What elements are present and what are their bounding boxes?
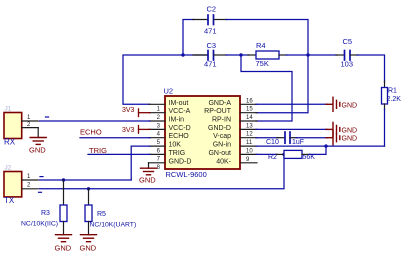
svg-text:IM-in: IM-in <box>169 117 185 124</box>
svg-text:VCC-A: VCC-A <box>169 108 191 115</box>
resistor R3 <box>60 205 67 222</box>
svg-text:C3: C3 <box>207 41 217 50</box>
svg-text:2: 2 <box>157 115 161 121</box>
wire R2 riser to pin11 node <box>309 146 326 154</box>
capacitor C10 <box>285 132 290 143</box>
svg-text:NC/10K(IIC): NC/10K(IIC) <box>21 220 58 227</box>
pin 14 stub RP-IN <box>240 120 257 122</box>
svg-text:C10: C10 <box>266 139 279 146</box>
wire C10 to ground <box>296 137 327 139</box>
svg-text:9: 9 <box>246 157 250 163</box>
connector RX <box>4 113 22 139</box>
wire R5 bottom lead <box>88 222 90 235</box>
svg-text:TRIG: TRIG <box>89 146 107 155</box>
svg-text:75K: 75K <box>256 59 269 68</box>
pin 10 stub GN-out <box>240 153 257 155</box>
svg-text:14: 14 <box>246 115 253 121</box>
svg-text:GND: GND <box>342 102 358 109</box>
ground right of pin16 <box>326 97 340 111</box>
svg-text:GND-A: GND-A <box>208 100 231 107</box>
wire ECHO to pin5 <box>80 137 150 139</box>
wire C2 right leg <box>226 20 308 56</box>
svg-text:3: 3 <box>157 123 161 129</box>
connector TX <box>4 172 22 197</box>
pin 9 stub 40K- <box>240 162 257 164</box>
svg-text:GND: GND <box>55 244 72 253</box>
wire C2 right black lead <box>214 19 227 21</box>
pin 15 stub RP-OUT <box>240 112 257 114</box>
wire RX pin2 down to ground <box>37 128 39 138</box>
wire C5 left black lead <box>336 54 344 56</box>
svg-text:GND: GND <box>342 127 358 134</box>
svg-text:10K: 10K <box>169 142 182 149</box>
wire R3 bottom lead <box>63 222 65 235</box>
svg-text:1: 1 <box>157 107 161 113</box>
svg-text:V-cap: V-cap <box>213 133 231 140</box>
capacitor C3 <box>208 51 214 61</box>
node junction C2 left leg / mid row <box>181 53 184 56</box>
svg-text:13: 13 <box>246 123 253 129</box>
pin 5 stub ECHO <box>149 137 165 139</box>
svg-text:2: 2 <box>27 182 31 188</box>
svg-text:GND: GND <box>139 176 156 185</box>
wire pin1 loop to feedback network <box>123 55 208 104</box>
RX pin 1 stub <box>22 120 39 122</box>
svg-text:GND: GND <box>80 244 97 253</box>
wire RX pin1 to IC pin3 <box>40 120 151 122</box>
wire R3 top lead <box>63 180 65 205</box>
svg-text:U2: U2 <box>164 87 174 96</box>
pin 8 stub GND-D <box>149 162 166 164</box>
ground below R3 <box>56 235 72 242</box>
svg-text:GN-in: GN-in <box>213 142 231 149</box>
wire C3 left black lead <box>193 54 208 56</box>
svg-text:R1: R1 <box>388 88 397 95</box>
svg-text:GN-out: GN-out <box>208 150 231 157</box>
svg-text:16: 16 <box>246 98 253 104</box>
wire C2 left leg <box>183 20 194 56</box>
wire C3 right black lead <box>214 54 227 56</box>
svg-text:1: 1 <box>27 174 31 180</box>
power symbol 3V3 pin2 <box>139 109 151 117</box>
svg-text:ECHO: ECHO <box>169 133 190 140</box>
wire TX pin1 to riser <box>40 179 132 181</box>
pin 1 stub IM-out <box>149 103 165 105</box>
node junction pin11 / R2 riser <box>324 144 327 147</box>
TX pin 2 stub <box>22 188 39 190</box>
pin 16 stub GND-A <box>240 103 257 105</box>
svg-text:RP-OUT: RP-OUT <box>204 108 232 115</box>
capacitor C5 <box>345 51 351 61</box>
pin 3 stub IM-in <box>149 120 165 122</box>
wire C5 right black lead <box>351 54 359 56</box>
power symbol 3V3 pin4 <box>139 126 151 134</box>
ground below RX pin2 <box>30 138 46 145</box>
IC U2 body <box>165 96 240 169</box>
wire R2 right black lead <box>302 153 310 155</box>
pin 11 stub GN-in <box>240 145 257 147</box>
svg-text:6: 6 <box>157 148 161 154</box>
wire pin10 to R2 <box>256 153 277 155</box>
wire R4 left black lead <box>248 54 256 56</box>
svg-text:2.2K: 2.2K <box>387 96 402 103</box>
node junction C3/R4/pin14 branch <box>239 53 242 56</box>
wire R4 to C5 <box>286 54 337 56</box>
svg-text:R4: R4 <box>256 41 266 50</box>
RX pin 2 stub <box>22 127 39 129</box>
wire R1 bottom black lead <box>384 104 386 110</box>
svg-text:R5: R5 <box>97 211 106 218</box>
node junction R4/C5/C2-right <box>306 53 309 56</box>
svg-text:11: 11 <box>246 140 253 146</box>
pin 4 stub VCC-D <box>149 128 165 130</box>
svg-text:471: 471 <box>204 27 217 36</box>
svg-text:TX: TX <box>4 196 15 205</box>
svg-text:8: 8 <box>157 165 161 171</box>
wire C3 to R4 <box>226 54 249 56</box>
wire R2 left black lead <box>276 153 284 155</box>
svg-text:RCWL-9600: RCWL-9600 <box>166 170 207 179</box>
wire C2 left black lead <box>193 19 208 21</box>
svg-text:15: 15 <box>246 107 253 113</box>
svg-text:7: 7 <box>157 157 161 163</box>
capacitor C2 <box>208 15 214 25</box>
wire riser TX pin1 to pin6 <box>131 146 150 180</box>
svg-text:GND-D: GND-D <box>169 158 192 165</box>
pin 6 stub 10K <box>149 145 165 147</box>
svg-text:C2: C2 <box>207 5 217 14</box>
svg-text:R3: R3 <box>41 210 50 217</box>
resistor R1 <box>382 88 388 105</box>
svg-text:TRIG: TRIG <box>169 150 186 157</box>
wire R1 bottom to pin11 row <box>384 109 386 146</box>
ground below pin8 <box>141 168 157 175</box>
svg-text:VCC-D: VCC-D <box>169 125 191 132</box>
svg-text:J2: J2 <box>5 165 12 172</box>
pin 2 stub VCC-A <box>149 112 165 114</box>
wire pin12 to C10 <box>256 137 278 139</box>
svg-text:GND: GND <box>342 136 358 143</box>
wire R5 top lead <box>88 189 90 205</box>
ground right of C10 <box>326 131 340 145</box>
svg-text:4: 4 <box>157 132 161 138</box>
svg-text:IM-out: IM-out <box>169 100 189 107</box>
svg-text:3V3: 3V3 <box>122 107 135 114</box>
node junction TX pin2 / R5 <box>87 187 90 190</box>
svg-text:R2: R2 <box>268 154 277 161</box>
svg-text:1uF: 1uF <box>292 139 304 146</box>
svg-text:40K-: 40K- <box>216 158 231 165</box>
svg-text:ECHO: ECHO <box>80 128 102 137</box>
svg-text:471: 471 <box>204 60 217 69</box>
svg-text:103: 103 <box>341 60 354 69</box>
wire R1 top black lead <box>384 81 386 88</box>
node junction pin10 / TX pin2 riser <box>282 153 285 156</box>
svg-text:3V3: 3V3 <box>122 127 135 134</box>
wire pin15 branch from R4/C5 node <box>256 55 308 113</box>
svg-text:RX: RX <box>4 138 16 147</box>
svg-text:RP-IN: RP-IN <box>212 117 231 124</box>
svg-text:10: 10 <box>246 148 253 154</box>
wire TX pin2 long run to R2 node <box>40 154 285 188</box>
wire pin14 branch from C3/R4 node <box>241 55 292 121</box>
resistor R2 <box>284 150 302 158</box>
wire TRIG to pin7 <box>88 153 150 155</box>
wire pin8 jog to ground <box>148 163 150 168</box>
node junction TX pin1 / R3 <box>62 178 65 181</box>
resistor R5 <box>85 205 92 222</box>
svg-text:5: 5 <box>157 140 161 146</box>
svg-text:C5: C5 <box>343 37 353 46</box>
tick mark on TX pin2 wire <box>39 191 42 193</box>
wire R4 right black lead <box>279 54 287 56</box>
wire C10 right black lead <box>290 137 297 139</box>
svg-text:12: 12 <box>246 132 253 138</box>
wire pin13 to ground <box>256 128 327 130</box>
svg-text:GND: GND <box>29 146 46 155</box>
wire pin16 to ground <box>256 103 327 105</box>
tick mark on TX pin1 wire <box>40 176 43 178</box>
svg-text:J1: J1 <box>5 106 12 113</box>
resistor R4 <box>256 51 279 59</box>
svg-text:1: 1 <box>27 115 31 121</box>
svg-text:GND-D: GND-D <box>208 125 231 132</box>
TX pin 1 stub <box>22 179 39 181</box>
pin 12 stub V-cap <box>240 137 257 139</box>
svg-text:NC/10K(UART): NC/10K(UART) <box>90 221 137 228</box>
wire C10 left black lead <box>277 137 284 139</box>
pin 7 stub TRIG <box>149 153 165 155</box>
wire C5 to R1 top <box>357 55 385 82</box>
ground right of pin13 <box>326 122 340 136</box>
ground below R5 <box>81 235 97 242</box>
pin 13 stub GND-D <box>240 128 257 130</box>
wire pin11 to R1 bottom <box>256 145 385 147</box>
tick mark on RX wire <box>46 116 49 118</box>
